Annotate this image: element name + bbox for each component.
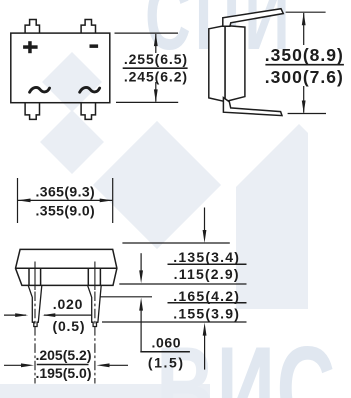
svg-text:.135(3.4): .135(3.4) [173, 249, 240, 265]
svg-text:.205(5.2): .205(5.2) [35, 347, 91, 363]
svg-text:.255(6.5): .255(6.5) [124, 51, 188, 67]
svg-text:(1.5): (1.5) [148, 355, 185, 371]
svg-text:ИС: ИС [217, 321, 337, 398]
svg-text:.355(9.0): .355(9.0) [35, 203, 95, 219]
svg-text:.020: .020 [53, 296, 83, 312]
svg-text:.195(5.0): .195(5.0) [35, 365, 91, 381]
svg-text:(0.5): (0.5) [53, 318, 86, 334]
svg-text:.155(3.9): .155(3.9) [173, 305, 240, 321]
svg-text:.350(8.9): .350(8.9) [265, 45, 344, 65]
svg-text:.060: .060 [151, 335, 181, 351]
svg-text:.245(6.2): .245(6.2) [124, 69, 188, 85]
svg-text:.300(7.6): .300(7.6) [265, 67, 344, 87]
svg-text:.365(9.3): .365(9.3) [35, 183, 95, 199]
svg-text:.165(4.2): .165(4.2) [173, 288, 240, 304]
svg-text:.115(2.9): .115(2.9) [174, 266, 240, 282]
